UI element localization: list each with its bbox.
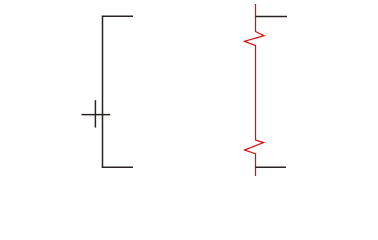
net N$1 apex blob bottom-left bbox=[244, 149, 247, 152]
net N$1 apex blob bottom-right bbox=[261, 141, 264, 144]
net N$1 apex blob top-right bbox=[262, 34, 265, 37]
wire W4 capacitor lead bbox=[82, 114, 111, 116]
wire W1 top lead of left branch bbox=[102, 15, 133, 17]
wire W2 vertical rail of left branch bbox=[102, 16, 104, 168]
net N$1 apex blob top-left bbox=[244, 40, 247, 43]
net N$1 red air-wire with zigzag squiggles bbox=[245, 4, 265, 176]
wire W6 bottom pin stub bbox=[256, 166, 287, 168]
wire W5 top pin stub bbox=[256, 16, 288, 18]
wire W3 bottom lead of left branch bbox=[102, 166, 133, 168]
capacitor C1 plate bbox=[94, 100, 96, 127]
